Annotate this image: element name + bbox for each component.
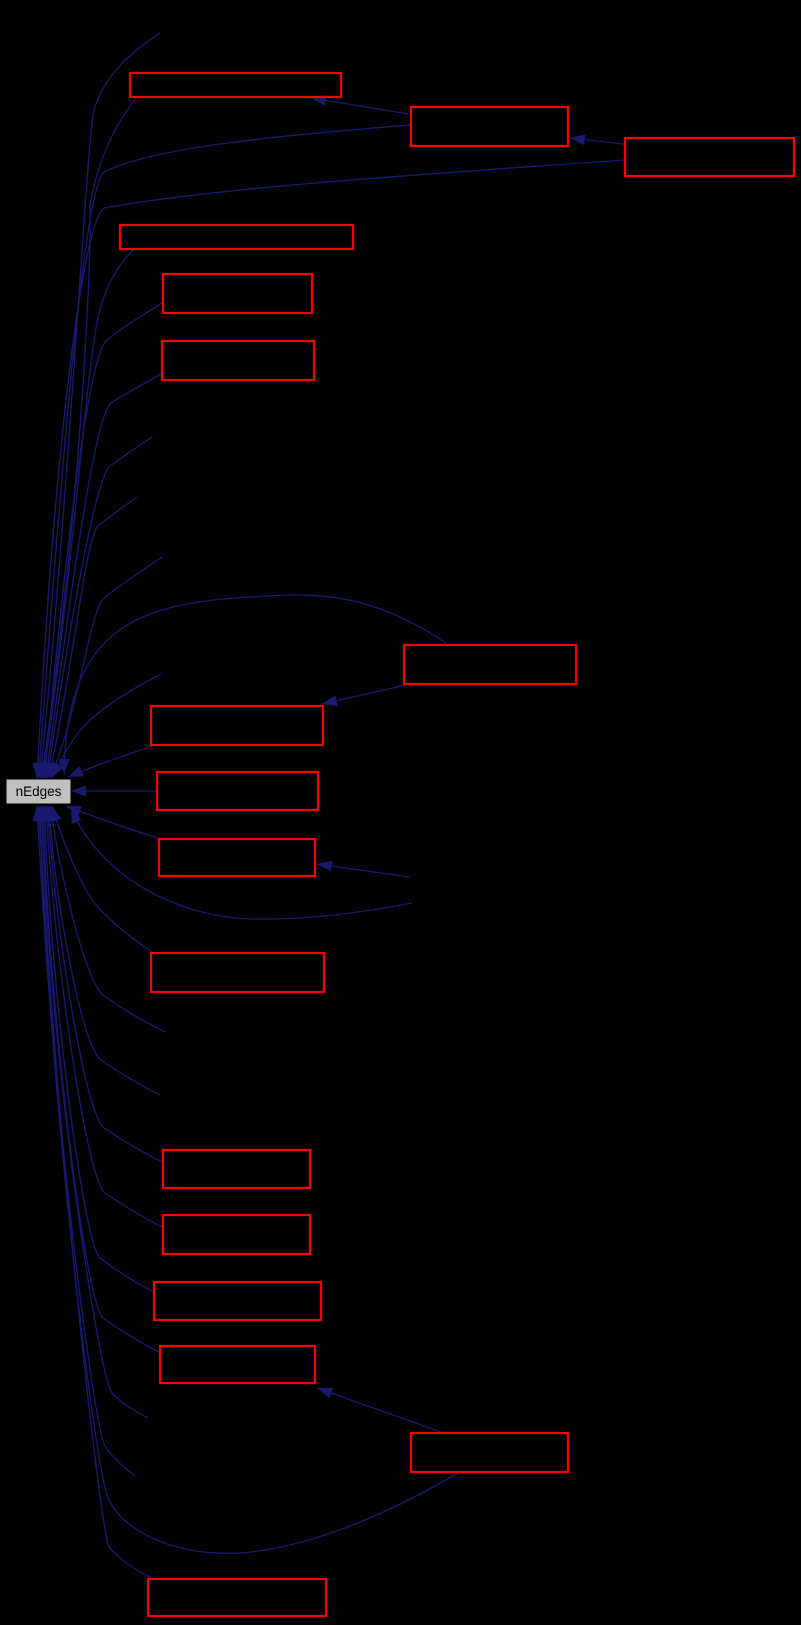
node O (truncated call-graph node) (160, 1346, 315, 1383)
node G (truncated call-graph node) (404, 645, 576, 684)
edge truncated-497 to nEdges (47, 497, 137, 778)
edge hidden-node to J (317, 861, 410, 877)
edge C to B (570, 134, 624, 145)
edge A to nEdges (38, 98, 136, 778)
node Q (truncated call-graph node) (148, 1579, 326, 1616)
edge N to nEdges (40, 806, 155, 1292)
node B (truncated call-graph node) (411, 107, 568, 146)
edge M to nEdges (41, 806, 162, 1227)
edge P to nEdges (32, 806, 458, 1553)
node K (truncated call-graph node) (151, 953, 324, 992)
node I (truncated call-graph node) (157, 772, 318, 810)
edge P to O (317, 1388, 441, 1432)
edge I to nEdges (71, 786, 156, 797)
node H (truncated call-graph node) (151, 706, 323, 745)
node A (truncated call-graph node) (130, 73, 341, 97)
edge D to nEdges (40, 250, 133, 778)
edge K to nEdges (51, 806, 152, 952)
edge L to nEdges (43, 806, 162, 1162)
edge truncated-673 to nEdges (52, 674, 161, 778)
node E (truncated call-graph node) (163, 274, 312, 313)
node L (truncated call-graph node) (163, 1150, 310, 1188)
node nEdges (current function) (6, 779, 71, 804)
edge C to nEdges (32, 160, 624, 778)
edge truncated-top to nEdges (36, 33, 160, 778)
edge H to nEdges (68, 746, 153, 777)
node J (truncated call-graph node) (159, 839, 315, 876)
edge truncated-437 to nEdges (44, 437, 152, 778)
edge B to A (311, 95, 409, 114)
svg-text:nEdges: nEdges (16, 784, 62, 799)
edge G to H (322, 685, 406, 706)
node C (truncated call-graph node) (625, 138, 794, 176)
node M (truncated call-graph node) (163, 1215, 310, 1254)
edge O to nEdges (38, 806, 159, 1352)
edge E to nEdges (40, 303, 162, 778)
edge truncated-1418 to nEdges (36, 806, 148, 1418)
edge hidden-node to nEdges (71, 808, 412, 919)
node D (truncated call-graph node) (120, 225, 353, 249)
edge truncated-1095 to nEdges (44, 806, 160, 1095)
node P (truncated call-graph node) (411, 1433, 568, 1472)
edge truncated-1032 to nEdges (47, 806, 165, 1032)
edge truncated-1477 to nEdges (35, 806, 135, 1476)
node N (truncated call-graph node) (154, 1282, 321, 1320)
edge truncated-557 to nEdges (51, 557, 163, 778)
edge J to nEdges (66, 806, 158, 838)
edge Q to nEdges (34, 806, 152, 1578)
edge G to nEdges (59, 595, 446, 774)
edge B to nEdges (34, 125, 410, 778)
node F (truncated call-graph node) (162, 341, 314, 380)
edge F to nEdges (43, 373, 163, 778)
